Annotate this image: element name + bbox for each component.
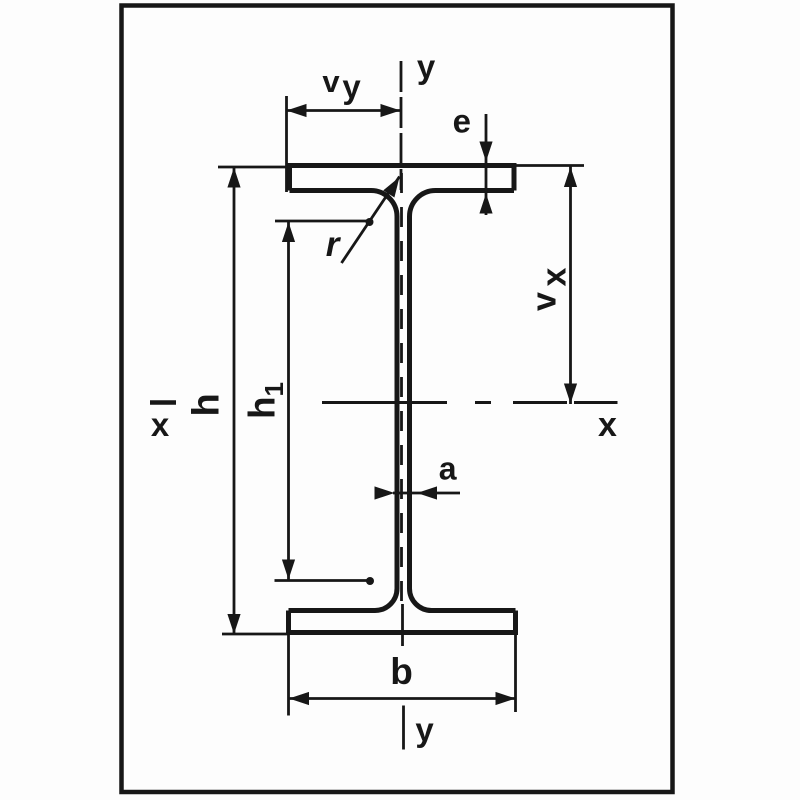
svg-text:y: y [342, 68, 361, 105]
svg-text:e: e [453, 102, 471, 139]
svg-text:y: y [417, 48, 436, 85]
svg-text:x: x [598, 406, 617, 444]
svg-text:h: h [186, 393, 228, 416]
svg-text:r: r [326, 225, 342, 264]
svg-text:x: x [151, 406, 170, 443]
svg-text:b: b [390, 651, 413, 692]
svg-text:a: a [439, 450, 457, 486]
svg-text:y: y [415, 711, 434, 748]
svg-text:v: v [322, 64, 340, 99]
